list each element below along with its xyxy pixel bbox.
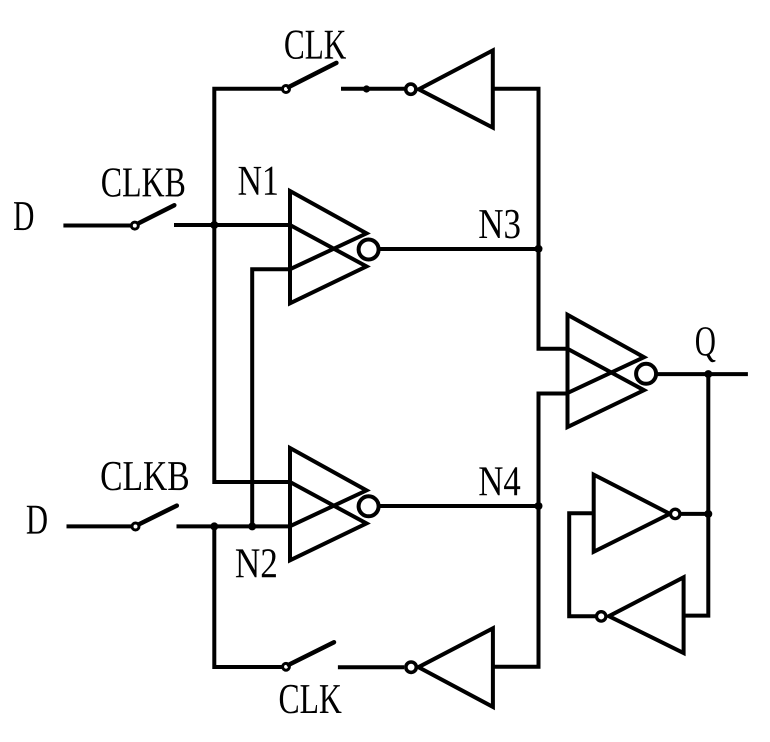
switch SW4 blade [289, 642, 334, 665]
label N1 [239, 167, 277, 195]
bubble of N2 gate [359, 496, 379, 516]
wire: D input (bottom) [67, 524, 132, 528]
node junction dot D1/rail [210, 221, 218, 229]
bubble of Q gate [636, 364, 656, 384]
switch SW1 (CLK top) pivot circle [283, 86, 290, 93]
bubble of inverter U2 [406, 84, 416, 94]
label N3 [479, 210, 519, 239]
tri-state inverter Q gate triangle T2 [568, 349, 645, 427]
node Q junction dot [704, 370, 712, 378]
tri-state inverter N2 gate triangle T2 [290, 482, 367, 560]
node junction dot on top CLK wire [363, 85, 370, 92]
node N4 junction dot [535, 502, 543, 510]
switch SW3 (CLKB bottom) pivot circle [132, 523, 139, 530]
tri-state inverter N1 gate triangle T2 [290, 225, 367, 303]
switch SW4 (CLK bottom) pivot circle [283, 663, 290, 670]
label CLK (top) [285, 30, 346, 59]
tri-state inverter Q gate triangle T1 [568, 315, 645, 393]
inverter U5 triangle (feedback, facing left) [609, 577, 684, 653]
bubble of N1 gate [359, 240, 379, 260]
wire: bottom CLK switch to bottom inverter bubble [338, 665, 404, 669]
wire: D1 switch to gate1 input1 [174, 223, 290, 227]
node junction dot D2/rail [210, 522, 218, 530]
wire: D2 switch to gate2 input2 [177, 524, 291, 528]
wire: lower-left rail from D2 junction to bottom CLK switch [214, 526, 281, 667]
wire: D input (top) [63, 224, 130, 228]
wire: feedback inverter U5 output up to U4 input [569, 513, 596, 616]
label CLKB (bottom) [101, 462, 188, 491]
label N2 [236, 549, 276, 577]
label D (top) [14, 202, 33, 230]
switch SW1 blade [289, 63, 337, 87]
wire: CLK switch to top inverter bubble [341, 87, 405, 91]
node N3 junction dot [535, 245, 543, 253]
wire: feedback inverter U4 output to Q rail [681, 512, 709, 516]
label Q [696, 327, 715, 362]
label CLKB (top) [102, 168, 184, 197]
bubble of inverter U5 [597, 612, 606, 621]
inverter U4 triangle (feedback, facing right) [594, 475, 670, 552]
inverter U2 triangle (top, facing left) [419, 50, 493, 127]
bubble of inverter U4 [671, 509, 680, 518]
wire: cross-couple N1 gate input2 down to D2 line [252, 269, 290, 526]
inverter U3 triangle (bottom, facing left) [418, 628, 493, 707]
label D (bottom) [27, 506, 47, 534]
tri-state inverter N1 gate triangle T1 [290, 191, 367, 269]
wire: bottom inverter input from N4 rail and up to gate3 input2 [493, 394, 568, 667]
wire: gate1 output to N3 rail [379, 247, 539, 251]
wire: Q rail down to feedback inverter U5 input [684, 374, 709, 615]
wire: top inverter input from N3 rail [493, 89, 568, 349]
wire: gate3 output Q line [656, 372, 748, 376]
node junction dot U4 output on Q rail [704, 510, 712, 518]
wire: top-left rail from CLK switch down to slave gate input1 [214, 89, 290, 482]
label CLK (bottom) [280, 685, 342, 714]
wire: gate2 output to N4 rail [379, 504, 539, 508]
label N4 [479, 467, 520, 495]
tri-state inverter N2 gate triangle T1 [290, 448, 367, 526]
bubble of inverter U3 [406, 662, 416, 672]
switch SW2 blade [139, 205, 175, 223]
node junction dot D2/cross-couple [248, 522, 256, 530]
switch SW3 blade [139, 506, 177, 524]
switch SW2 (CLKB top) pivot circle [131, 222, 138, 229]
